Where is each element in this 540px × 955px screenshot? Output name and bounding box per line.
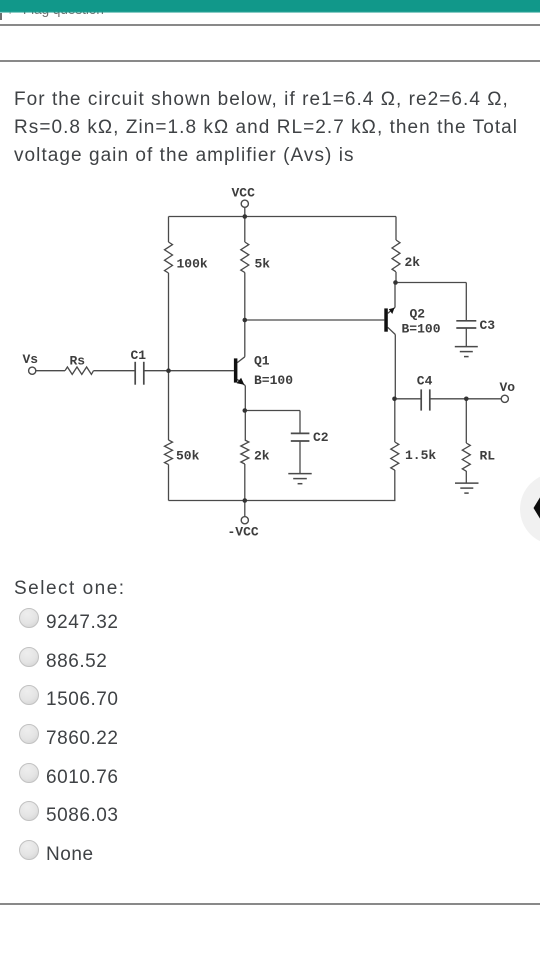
svg-text:50k: 50k bbox=[176, 449, 200, 464]
svg-text:C4: C4 bbox=[417, 374, 433, 389]
svg-text:C2: C2 bbox=[313, 430, 329, 445]
svg-text:2k: 2k bbox=[254, 449, 270, 464]
svg-text:RL: RL bbox=[480, 449, 496, 464]
svg-text:Vo: Vo bbox=[500, 380, 516, 395]
svg-text:1.5k: 1.5k bbox=[405, 448, 436, 463]
svg-text:5k: 5k bbox=[255, 257, 271, 272]
svg-text:C1: C1 bbox=[131, 348, 147, 363]
svg-text:Q2: Q2 bbox=[410, 307, 426, 322]
svg-text:VCC: VCC bbox=[232, 186, 256, 201]
svg-text:B=100: B=100 bbox=[402, 322, 441, 337]
svg-text:-VCC: -VCC bbox=[228, 525, 259, 540]
svg-text:Vs: Vs bbox=[23, 352, 39, 367]
svg-text:B=100: B=100 bbox=[254, 373, 293, 388]
svg-text:C3: C3 bbox=[480, 318, 496, 333]
svg-text:Q1: Q1 bbox=[254, 354, 270, 369]
svg-text:2k: 2k bbox=[405, 255, 421, 270]
svg-text:Rs: Rs bbox=[70, 354, 86, 369]
svg-text:100k: 100k bbox=[177, 257, 208, 272]
